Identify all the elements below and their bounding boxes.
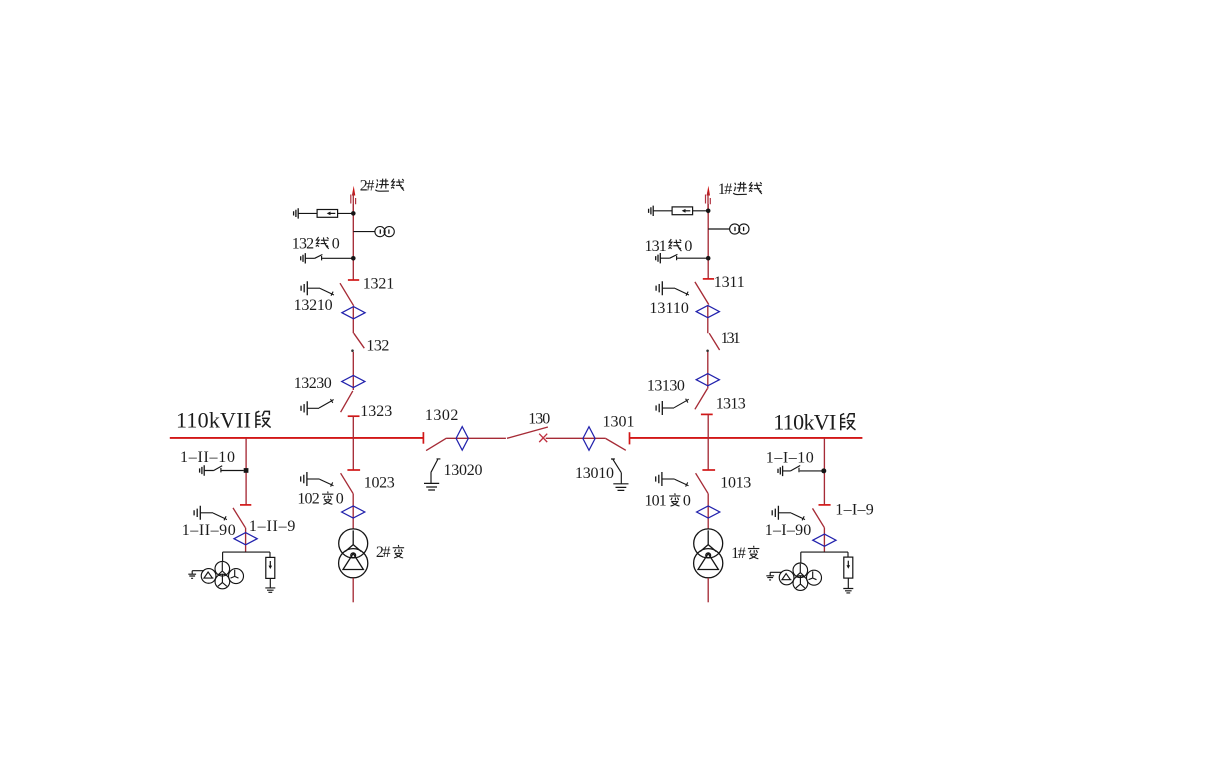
disconnector 1023 (open) bbox=[341, 470, 361, 494]
earthing switch 13010 bbox=[611, 459, 629, 490]
earthing switch 132线0 bbox=[301, 253, 354, 263]
junction dot (1-I-10 tap) bbox=[821, 468, 826, 473]
svg-text:1–II–90: 1–II–90 bbox=[182, 522, 236, 539]
disconnector 1313 (open) bbox=[695, 389, 713, 415]
junction dot (132线0 tap) bbox=[351, 256, 356, 261]
svg-text:1–I–10: 1–I–10 bbox=[766, 450, 814, 467]
label 2#进线 bbox=[360, 178, 404, 195]
earthing switch 131线0 bbox=[656, 253, 709, 263]
svg-text:131: 131 bbox=[721, 330, 741, 347]
svg-text:0: 0 bbox=[683, 492, 691, 509]
breaker 131 (open blade) bbox=[706, 333, 719, 352]
CT (metering double circle, right line) bbox=[708, 224, 749, 234]
wire PT/arrester tee (left) bbox=[223, 552, 270, 562]
wire transformer 1#变 tail bbox=[707, 578, 709, 602]
svg-text:2#: 2# bbox=[376, 544, 391, 561]
bus 110kV I section busbar bbox=[630, 437, 863, 439]
svg-text:1–II–9: 1–II–9 bbox=[249, 518, 296, 535]
svg-text:130: 130 bbox=[528, 410, 550, 427]
svg-text:1–II–10: 1–II–10 bbox=[180, 449, 235, 466]
svg-text:0: 0 bbox=[336, 491, 344, 508]
disconnector indicator diamond (1-II-9) bbox=[234, 533, 257, 545]
svg-text:110kVII: 110kVII bbox=[176, 407, 251, 432]
wire PT bay I drop bbox=[823, 438, 825, 505]
svg-text:1313: 1313 bbox=[716, 395, 746, 412]
voltage transformer group (II PT) bbox=[188, 561, 243, 588]
disconnector indicator diamond (1311) bbox=[696, 305, 719, 333]
earthing switch 102变0 bbox=[301, 472, 334, 487]
wire 131 to 1313 diamond bbox=[707, 352, 709, 389]
svg-text:1302: 1302 bbox=[425, 407, 459, 424]
wire 1023 to transformer bbox=[352, 494, 354, 529]
voltage transformer group (I PT) bbox=[766, 563, 821, 590]
breaker 132 (open blade) bbox=[351, 333, 364, 352]
svg-text:102: 102 bbox=[297, 491, 319, 508]
svg-text:2#: 2# bbox=[360, 178, 375, 195]
svg-text:13010: 13010 bbox=[575, 465, 614, 482]
bus 110kV II section busbar bbox=[170, 437, 424, 439]
wire PT bay II drop bbox=[245, 438, 247, 505]
wire 1-I-9 to diamond bbox=[823, 528, 825, 552]
disconnector 1323 (open) bbox=[341, 391, 360, 416]
svg-text:1–I–9: 1–I–9 bbox=[835, 501, 874, 518]
junction square (1-II-10 tap) bbox=[244, 468, 249, 473]
svg-text:0: 0 bbox=[332, 236, 340, 253]
label 131线0 bbox=[645, 238, 693, 255]
svg-text:110kVI: 110kVI bbox=[773, 410, 836, 435]
disconnector 1321 (open) bbox=[340, 280, 359, 306]
wire 1313 to bus and through to transformer bay bbox=[707, 414, 709, 470]
svg-text:132: 132 bbox=[292, 236, 314, 253]
wire left incoming main vertical bbox=[352, 204, 354, 280]
surge arrester (I PT bay) with ground bbox=[843, 557, 853, 593]
junction dot (131线0 tap) bbox=[706, 256, 711, 261]
svg-text:1–I–90: 1–I–90 bbox=[765, 522, 812, 539]
svg-text:1301: 1301 bbox=[603, 413, 635, 430]
surge arrester F1 with ground (left line) bbox=[294, 208, 354, 218]
svg-text:1311: 1311 bbox=[714, 274, 745, 291]
disconnector 1311 (open) bbox=[695, 279, 714, 305]
disconnector 1302 blade (open) bbox=[426, 438, 447, 451]
svg-text:1323: 1323 bbox=[360, 403, 392, 420]
earthing switch 1-II-10 bbox=[200, 465, 244, 475]
svg-text:13130: 13130 bbox=[647, 377, 685, 394]
svg-text:1#: 1# bbox=[731, 545, 746, 562]
disconnector indicator diamond (1313) bbox=[696, 374, 719, 386]
label 102变0 bbox=[297, 491, 343, 508]
disconnector indicator diamond (1321) bbox=[342, 306, 365, 333]
surge arrester (II PT bay) with ground bbox=[265, 557, 275, 592]
wire 132 to 1323 diamond bbox=[352, 352, 354, 390]
transformer 2#变 (Y/D) bbox=[339, 529, 368, 578]
disconnector 1-II-9 (open) bbox=[233, 505, 251, 528]
contact bar 1302 (bus end) bbox=[422, 432, 424, 444]
svg-text:13210: 13210 bbox=[294, 297, 333, 314]
disconnector indicator diamond (1023) bbox=[342, 506, 365, 518]
earthing switch 1-I-90 bbox=[772, 506, 805, 521]
node 1#进线 incoming line arrow bbox=[706, 186, 711, 214]
node 2#进线 incoming line arrow bbox=[351, 186, 356, 214]
label 110kVII段 bbox=[176, 407, 271, 432]
wire 1013 to transformer bbox=[707, 494, 709, 529]
CT (metering double circle, left line) bbox=[353, 227, 394, 237]
label 2#变 bbox=[376, 544, 404, 561]
wire tie left segment bbox=[447, 437, 506, 439]
earthing switch 13110 bbox=[656, 281, 689, 296]
earthing switch 13130 bbox=[656, 399, 689, 415]
disconnector 1301 blade (open) bbox=[606, 439, 626, 451]
earthing switch 1-II-90 bbox=[194, 506, 227, 521]
label 110kVI段 bbox=[773, 410, 855, 435]
svg-text:1#: 1# bbox=[718, 181, 733, 198]
earthing switch 13230 bbox=[301, 399, 334, 415]
label 101变0 bbox=[645, 492, 691, 509]
disconnector indicator diamond (1301) bbox=[583, 427, 595, 451]
label 132线0 bbox=[292, 236, 340, 253]
transformer 1#变 (Y/D) bbox=[694, 529, 723, 578]
surge arrester F2 with ground (right line) bbox=[649, 206, 709, 216]
svg-text:101: 101 bbox=[645, 492, 667, 509]
earthing switch 1-I-10 bbox=[778, 466, 822, 477]
junction dot (arrester tap) bbox=[351, 211, 356, 216]
contact bar 1301 (bus end) bbox=[629, 432, 631, 444]
label 1#进线 bbox=[718, 181, 762, 198]
disconnector indicator diamond (1302) bbox=[456, 427, 468, 451]
svg-text:13110: 13110 bbox=[649, 300, 689, 317]
breaker 130 (open blade) bbox=[507, 427, 548, 442]
svg-text:1321: 1321 bbox=[363, 275, 395, 292]
junction dot (arrester tap right) bbox=[706, 209, 711, 214]
svg-text:1013: 1013 bbox=[720, 474, 751, 491]
svg-text:0: 0 bbox=[684, 238, 692, 255]
disconnector indicator diamond (1013) bbox=[697, 506, 720, 518]
disconnector indicator diamond (1-I-9) bbox=[813, 534, 836, 546]
svg-text:13230: 13230 bbox=[294, 375, 332, 392]
svg-text:132: 132 bbox=[366, 338, 389, 355]
label 1#变 bbox=[731, 545, 759, 562]
wire 1323 to bus and through to transformer bay bbox=[352, 416, 354, 470]
wire PT/arrester tee (right) bbox=[801, 552, 848, 563]
disconnector 1013 (open) bbox=[696, 470, 716, 494]
wire tie right segment bbox=[546, 437, 606, 439]
earthing switch 13020 bbox=[424, 459, 440, 490]
earthing switch 13210 bbox=[301, 281, 334, 296]
disconnector 1-I-9 (open) bbox=[813, 505, 831, 528]
wire 1-II-9 to diamond bbox=[245, 528, 247, 552]
disconnector indicator diamond (1323) bbox=[342, 375, 365, 387]
wire right incoming main vertical bbox=[707, 204, 709, 279]
svg-text:1023: 1023 bbox=[364, 474, 395, 491]
earthing switch 101变0 bbox=[656, 472, 689, 487]
wire transformer 2#变 tail bbox=[352, 578, 354, 602]
svg-text:13020: 13020 bbox=[444, 462, 483, 479]
svg-text:131: 131 bbox=[645, 238, 667, 255]
